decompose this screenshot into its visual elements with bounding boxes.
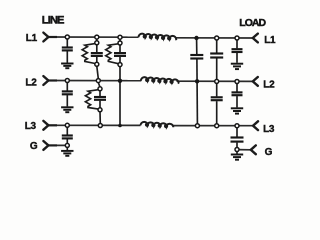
- svg-text:L3: L3: [263, 124, 275, 135]
- svg-text:L2: L2: [263, 79, 275, 90]
- svg-text:L3: L3: [25, 121, 37, 132]
- svg-text:L1: L1: [26, 33, 38, 44]
- svg-text:G: G: [265, 147, 273, 158]
- svg-text:G: G: [30, 141, 38, 152]
- svg-text:L1: L1: [264, 35, 276, 46]
- svg-text:L2: L2: [25, 77, 37, 88]
- svg-text:LOAD: LOAD: [239, 17, 266, 29]
- svg-text:LINE: LINE: [42, 14, 64, 26]
